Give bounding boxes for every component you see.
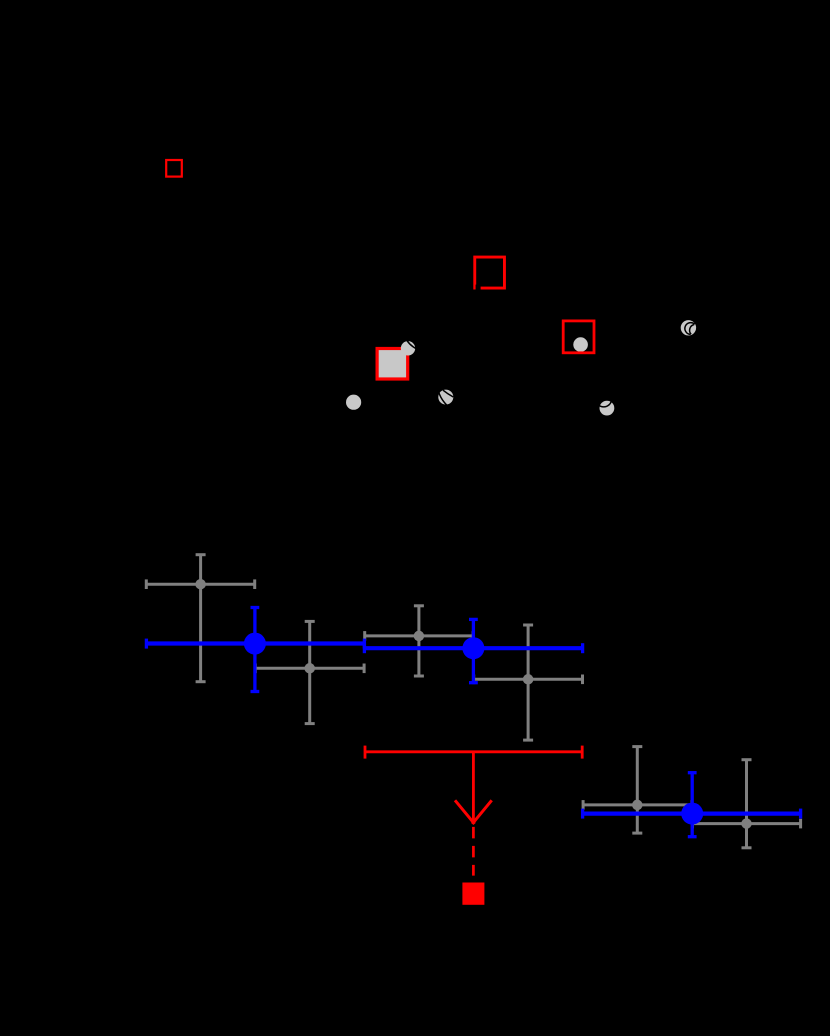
black open-circle marker seam 1 over circle C	[443, 390, 453, 397]
top panel: red open square marker 1 (small)	[166, 160, 182, 177]
gray marker g2	[304, 663, 315, 674]
top panel: gray circle E (under red square 3)	[573, 337, 588, 352]
gray marker g4	[523, 674, 534, 685]
bottom panel: blue data point b1	[146, 607, 364, 692]
bottom panel: gray data point g5	[583, 746, 692, 833]
gray marker g5	[632, 800, 643, 811]
black open-circle marker seam 2 over circle D	[690, 325, 695, 335]
bottom panel: gray data point g6	[692, 759, 801, 848]
red arrowhead	[455, 800, 475, 824]
gray marker g3	[414, 631, 425, 642]
top panel: gray circle B	[346, 395, 361, 410]
faint black seam grazing top of circle B	[347, 392, 358, 396]
blue marker b2	[462, 637, 484, 659]
top panel: gray circle F	[600, 401, 615, 416]
bottom panel: gray data point g2	[255, 621, 364, 724]
gray marker g1	[195, 579, 206, 590]
bottom panel: blue data point b3	[583, 772, 801, 837]
bottom panel: gray data point g3	[364, 606, 473, 677]
top panel: red open square marker 3	[563, 321, 594, 353]
top panel: gray circle C	[438, 390, 453, 405]
top panel: red open square marker 2	[475, 257, 505, 288]
bottom panel: gray data point g1	[146, 554, 255, 682]
black open-circle marker seam over circle A	[403, 305, 448, 350]
red dashed connector	[472, 827, 475, 876]
black open-circle marker seam 2 over circle C	[437, 349, 503, 415]
gray marker g6	[741, 818, 752, 829]
black open-circle marker clipping square 2 bottom-left corner	[476, 285, 481, 291]
bottom panel: gray data point g4	[473, 625, 582, 741]
red filled square marker	[462, 883, 484, 905]
bottom panel: blue data point b2	[364, 619, 582, 683]
blue marker b3	[681, 803, 703, 825]
blue marker b1	[244, 633, 266, 655]
top panel: gray circle D	[681, 320, 696, 335]
black open-circle marker seam 1 over circle D	[685, 323, 695, 335]
top panel: gray filled square with red border	[377, 349, 408, 380]
red limit arrow shaft	[472, 752, 475, 821]
black open-circle marker seam over circle F	[596, 391, 612, 407]
top panel: gray circle A (over square corner)	[401, 341, 415, 355]
bottom panel: red upper-limit horizontal bar	[364, 746, 582, 759]
